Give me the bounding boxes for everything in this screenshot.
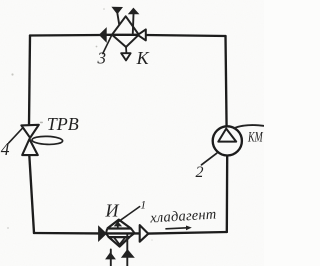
condenser leader line to label 3 (103, 36, 112, 54)
wire left (to expansion valve) (29, 36, 34, 234)
evaporator I upper triangle (107, 220, 131, 229)
condenser heat arrow left (head) (111, 7, 123, 25)
evaporator inner open arrowhead (V) (114, 237, 125, 244)
condenser K rhombus (112, 16, 139, 47)
condenser bottom stub wire (125, 47, 127, 53)
condenser outlet filled arrowhead (liquid) (100, 28, 107, 41)
compressor leader line to label KM (234, 125, 264, 128)
evaporator left vertex connector (106, 229, 109, 238)
wire top (condenser line) (30, 35, 226, 36)
compressor leader line to label 2 (202, 153, 217, 165)
refrigerant flow arrow (166, 226, 192, 231)
scan texture overlay (0, 0, 1, 1)
wire right (to compressor) (226, 36, 228, 232)
evaporator inlet filled arrowhead (liquid) (99, 226, 107, 240)
compressor triangle (218, 129, 236, 142)
valve leader line to label 4 (9, 128, 23, 143)
wire bottom (evaporator line) (34, 232, 227, 234)
compressor KM circle (213, 126, 242, 155)
condenser inlet open arrowhead (vapor) (138, 29, 146, 40)
evaporator inner filled arrowhead (top) (114, 221, 122, 228)
condenser bottom open arrowhead (121, 53, 130, 60)
expansion valve TRV lower triangle (22, 139, 38, 155)
evaporator outlet open arrowhead (vapor) (140, 225, 149, 242)
evaporator leader line to label 1 (118, 207, 139, 222)
scan specks (noise) (7, 8, 153, 241)
evaporator heat arrow right (up) (121, 235, 135, 266)
condenser heat arrow right (up) (128, 8, 140, 34)
expansion valve TRV upper triangle (21, 125, 38, 138)
expansion valve actuator ellipse (32, 136, 63, 145)
evaporator I lower triangle (109, 237, 130, 247)
evaporator right vertex connector (129, 229, 134, 238)
evaporator heat arrow left (up) (105, 250, 116, 266)
